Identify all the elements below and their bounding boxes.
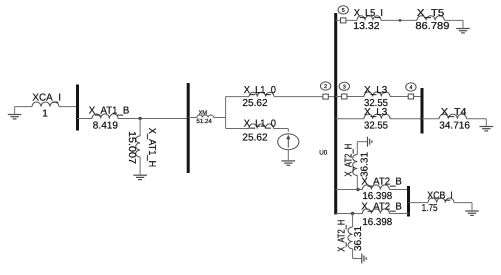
wire: B1 to X_AT1_B xyxy=(78,118,93,120)
inductor X_T4 xyxy=(439,114,466,119)
svg-text:8.419: 8.419 xyxy=(93,121,119,132)
inductor X_AT2_H (top) xyxy=(353,155,358,176)
inductor XCB_I xyxy=(428,198,454,203)
svg-text:32.55: 32.55 xyxy=(364,121,388,132)
junction dot (AT2 top tee) xyxy=(356,188,359,191)
svg-text:X_AT2_H: X_AT2_H xyxy=(337,220,348,252)
wire: X_L3 to node 4 xyxy=(390,96,422,98)
svg-text:X_T4: X_T4 xyxy=(441,107,467,118)
wire: B3 to X_L3 (bottom) xyxy=(336,118,364,120)
wire: split vertical xyxy=(225,97,227,129)
svg-text:1.75: 1.75 xyxy=(422,203,438,214)
inductor XCA_I xyxy=(32,102,59,107)
svg-text:X_L3: X_L3 xyxy=(364,107,388,118)
inductor X_L3 (top) xyxy=(364,92,390,97)
wire: tee down to X_AT1_H xyxy=(139,119,141,136)
bus B1 xyxy=(76,85,79,131)
ground G1 (left, for XCA_I) xyxy=(14,107,16,114)
bus B3 (main right bus) xyxy=(334,13,337,215)
wire: B5 to XCB_I xyxy=(409,202,429,204)
ground G2 (below X_AT1_H) xyxy=(133,174,147,176)
svg-text:51.24: 51.24 xyxy=(196,118,212,125)
wire: tee up to X_AT2_H (top) xyxy=(356,175,358,189)
wire: X_L1_0 to node 2 xyxy=(274,96,336,98)
svg-text:15.007: 15.007 xyxy=(126,131,137,164)
bus B4 (right) xyxy=(421,88,424,134)
wire: B3 to X_AT2_B (bottom) xyxy=(336,213,363,215)
svg-text:25.62: 25.62 xyxy=(242,98,268,109)
node 2 xyxy=(320,82,330,90)
ground G3 (below source) xyxy=(282,160,296,162)
ground G6 (sideways, top) xyxy=(367,137,369,147)
junction node (AT1 tee) xyxy=(138,117,141,120)
svg-text:36.31: 36.31 xyxy=(359,152,370,177)
source U0 (current source) xyxy=(278,134,299,150)
svg-text:4: 4 xyxy=(409,85,412,91)
svg-text:XCA_I: XCA_I xyxy=(32,93,61,104)
wire: XM to split xyxy=(214,117,226,119)
wire: X_T4 to ground xyxy=(467,118,487,120)
svg-text:36.31: 36.31 xyxy=(353,226,364,251)
svg-text:5: 5 xyxy=(342,8,345,14)
svg-text:X_L5_I: X_L5_I xyxy=(354,8,383,19)
svg-text:X_L3: X_L3 xyxy=(364,85,388,96)
wire: X_L1_0 to source xyxy=(274,128,289,130)
wire: split to X_L1_0 (bottom) xyxy=(226,128,249,130)
junction dot (AT2 bottom tee) xyxy=(351,212,354,215)
wire: ground to XCA_I xyxy=(15,106,32,108)
junction dot (L5/T5) xyxy=(399,19,402,22)
inductor X_L5_I xyxy=(357,16,381,21)
svg-text:16.398: 16.398 xyxy=(362,217,392,228)
inductor X_T5 xyxy=(417,16,444,21)
wire: B3 to node 3 xyxy=(336,96,364,98)
wire: B3 to X_AT2_B (top) xyxy=(336,189,363,191)
bus B5 (middle-low) xyxy=(407,186,410,217)
wire: X_L3 to bus B4 xyxy=(390,118,422,120)
wire: tee down to X_AT2_H (bottom) xyxy=(352,214,354,228)
svg-text:34.716: 34.716 xyxy=(439,121,470,132)
inductor X_AT2_H (bottom) xyxy=(348,227,353,249)
svg-text:X_L1_0: X_L1_0 xyxy=(244,119,277,130)
svg-text:86.789: 86.789 xyxy=(415,21,450,32)
inductor X_L1_0 (bottom) xyxy=(249,124,274,129)
wire: X_AT1_B to bus B2 xyxy=(118,118,188,120)
svg-text:X_AT2_B: X_AT2_B xyxy=(361,177,402,188)
wire: B4 to X_T4 xyxy=(422,118,439,120)
svg-text:X_L1_0: X_L1_0 xyxy=(244,85,277,96)
wire: X_T5 to ground xyxy=(444,19,463,21)
svg-text:X_AT2_B: X_AT2_B xyxy=(361,202,402,213)
inductor X_L1_0 (top) xyxy=(249,92,274,96)
svg-text:X_AT1_B: X_AT1_B xyxy=(89,106,130,117)
ground G7 (after XCB_I) xyxy=(465,210,479,212)
svg-text:U0: U0 xyxy=(319,149,327,156)
inductor X_L3 (bottom) xyxy=(364,114,390,119)
node 3 xyxy=(339,82,349,90)
wire: XCA_I to bus B1 xyxy=(59,106,78,108)
wire: X_L5_I to X_T5 xyxy=(381,19,417,21)
svg-text:XCB_I: XCB_I xyxy=(427,190,453,201)
svg-text:X_T5: X_T5 xyxy=(417,8,445,19)
node 4 xyxy=(406,83,416,91)
wire: B2 to XM xyxy=(188,117,197,119)
wire: X_AT2_B bottom to bus B5 xyxy=(389,213,408,215)
wire: X_AT2_B to bus B5 xyxy=(389,189,408,191)
svg-text:1: 1 xyxy=(42,108,48,119)
svg-text:X_AT1_H: X_AT1_H xyxy=(146,128,157,168)
ground G5 (after X_T4) xyxy=(480,126,494,128)
inductor XM xyxy=(197,115,214,117)
svg-text:XM: XM xyxy=(199,110,207,117)
inductor X_AT2_B (top) xyxy=(362,185,389,190)
inductor X_AT2_B (bottom) xyxy=(362,209,389,214)
ground G8 (sideways, bottom) xyxy=(361,254,363,264)
svg-text:16.398: 16.398 xyxy=(362,191,392,202)
node 5 xyxy=(336,19,357,21)
svg-text:25.62: 25.62 xyxy=(242,133,268,144)
wire: X_AT2_H to sideways ground xyxy=(356,142,358,155)
wire: XCB_I to ground xyxy=(454,202,472,204)
svg-text:3: 3 xyxy=(343,84,346,90)
wire: X_AT2_H bottom to sideways ground xyxy=(352,249,354,259)
svg-text:X_AT2_H: X_AT2_H xyxy=(344,144,355,177)
ground G4 (after X_T5) xyxy=(456,28,470,30)
svg-text:13.32: 13.32 xyxy=(353,21,380,32)
wire: X_AT1_H to ground xyxy=(139,157,141,175)
inductor X_AT1_B xyxy=(92,114,118,119)
bus B2 xyxy=(187,83,190,173)
wire: split to X_L1_0 (top) xyxy=(226,96,249,98)
svg-text:2: 2 xyxy=(324,84,327,90)
inductor X_AT1_H xyxy=(136,136,140,157)
wire: source to ground xyxy=(287,150,289,161)
